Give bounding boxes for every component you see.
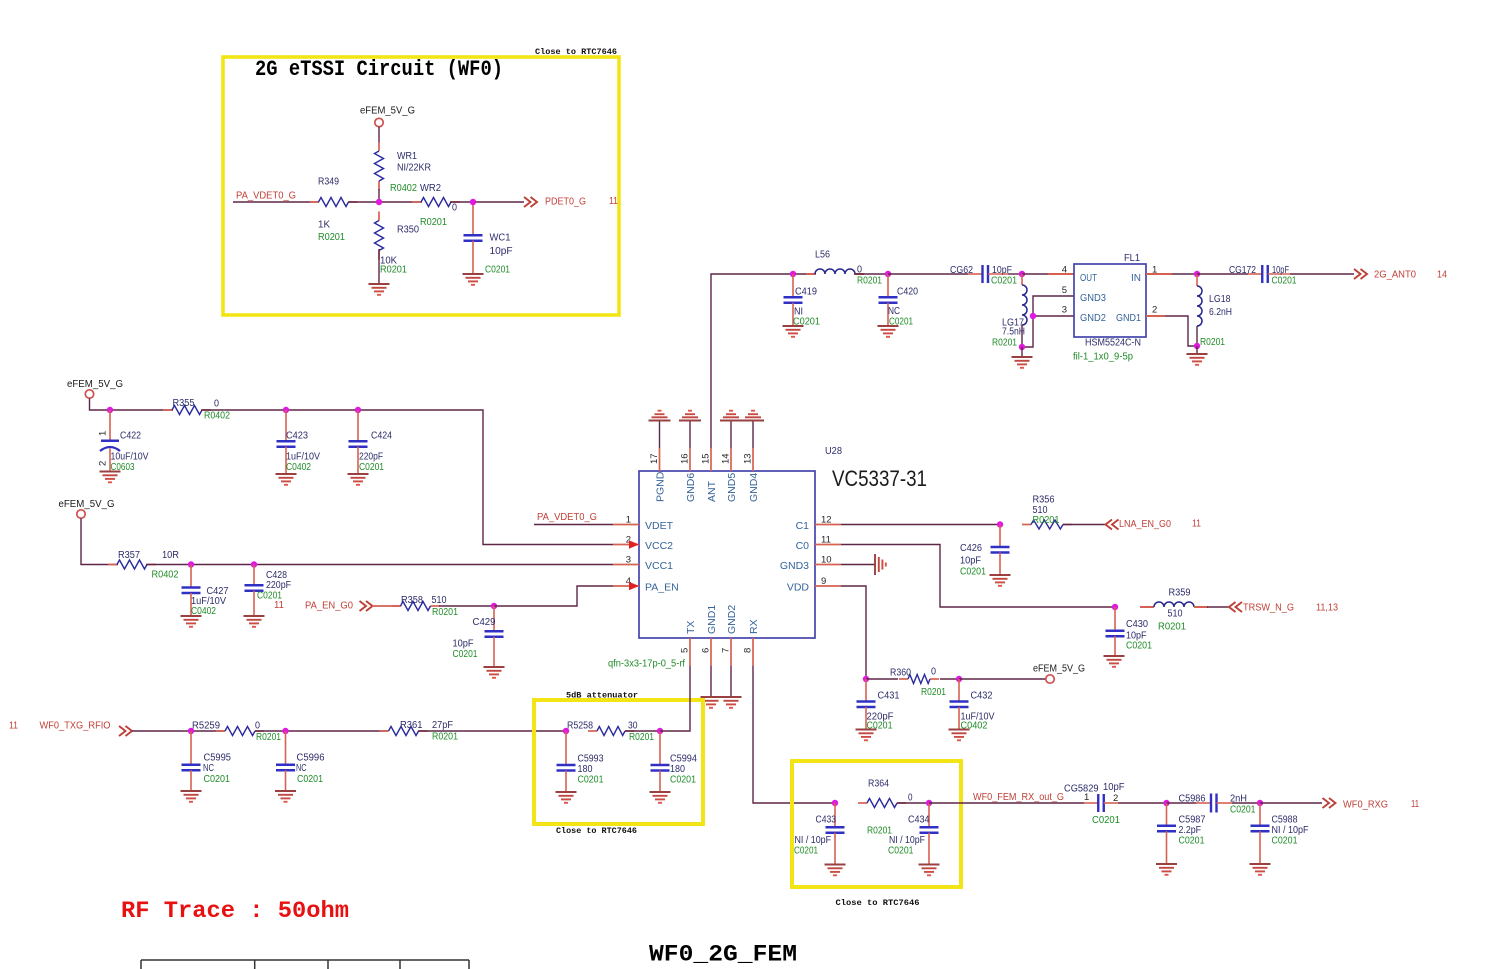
svg-text:R0201: R0201: [857, 276, 882, 287]
svg-text:TX: TX: [685, 621, 697, 634]
pin 11 stub U28 C0: [815, 544, 841, 546]
svg-text:1: 1: [1084, 792, 1089, 803]
wire R359 to TRSW port: [1207, 606, 1229, 608]
frame 5dB attenuator yellow box: [534, 700, 703, 824]
ground wire U28 GND1: [710, 666, 712, 697]
svg-text:10pF: 10pF: [490, 246, 513, 257]
svg-text:C432: C432: [971, 691, 993, 702]
svg-text:C434: C434: [908, 815, 930, 826]
wire WR2 to node2: [450, 201, 473, 203]
capacitor C427: [190, 565, 192, 588]
svg-text:11: 11: [1192, 518, 1201, 530]
svg-text:C0201: C0201: [453, 649, 478, 660]
svg-text:NI/22KR: NI/22KR: [397, 163, 431, 174]
wire CG172 to port: [1290, 273, 1354, 275]
capacitor C430: [1114, 607, 1116, 631]
svg-text:10: 10: [821, 555, 832, 566]
svg-text:1K: 1K: [318, 220, 330, 231]
svg-text:2G eTSSI Circuit (WF0): 2G eTSSI Circuit (WF0): [255, 57, 503, 82]
pin 4 stub U28 PA_EN: [613, 585, 639, 587]
wire R361 to attenuator: [418, 730, 567, 732]
ground (C422): [100, 471, 121, 473]
svg-text:R0201: R0201: [256, 732, 281, 743]
capacitor WC1: [472, 202, 474, 235]
wire PA_EN step to chip: [494, 586, 613, 606]
ground (C5993): [556, 791, 577, 793]
svg-text:U28: U28: [825, 446, 842, 457]
capacitor C420: [887, 274, 889, 297]
svg-text:PA_EN_G0: PA_EN_G0: [305, 600, 353, 612]
svg-text:16: 16: [680, 453, 691, 464]
svg-text:C426: C426: [960, 543, 982, 554]
capacitor C5996: [285, 731, 287, 765]
svg-text:GND6: GND6: [685, 473, 697, 502]
wire node to WR2: [379, 201, 422, 203]
wire R356 to LNA port: [1063, 524, 1105, 526]
wire rail2: [81, 518, 118, 564]
svg-text:C0201: C0201: [1126, 641, 1152, 652]
svg-text:180: 180: [578, 764, 593, 775]
wire node2 to PDET0_G port: [473, 201, 524, 203]
svg-text:11: 11: [274, 599, 284, 611]
capacitor C426: [999, 525, 1001, 548]
port PDET0_G: [524, 197, 531, 207]
svg-text:C0201: C0201: [204, 774, 231, 785]
wire L56 to node C420: [854, 273, 888, 275]
wire ANT net vertical: [711, 274, 793, 448]
svg-text:WR2: WR2: [420, 183, 441, 194]
ground (C5996): [275, 790, 296, 792]
svg-text:6.2nH: 6.2nH: [1209, 307, 1232, 318]
svg-text:R356: R356: [1033, 495, 1055, 506]
ground (C420): [878, 325, 899, 327]
svg-text:NI / 10pF: NI / 10pF: [795, 835, 832, 846]
wire R5258 to node C5994: [625, 730, 660, 732]
svg-text:C422: C422: [120, 431, 141, 442]
ground (C5987): [1156, 863, 1177, 865]
node att C5994: [657, 728, 663, 734]
svg-text:NC: NC: [296, 763, 307, 774]
svg-text:R5258: R5258: [567, 721, 593, 732]
svg-text:CG62: CG62: [950, 265, 973, 276]
svg-text:R0201: R0201: [380, 265, 407, 276]
node rxout C5987: [1163, 800, 1169, 806]
pin 1 stub FL1: [1146, 273, 1172, 275]
capacitor C5987: [1166, 803, 1168, 826]
svg-text:C5995: C5995: [204, 753, 232, 764]
ground (U28 pin 16): [679, 420, 701, 422]
node gnd2 pin3: [1030, 313, 1036, 319]
wire C0 to TRSW rail: [841, 545, 1115, 608]
wire LG18 to ground: [1196, 346, 1198, 354]
svg-text:LG18: LG18: [1209, 294, 1231, 305]
svg-text:C424: C424: [371, 431, 392, 442]
svg-text:VDD: VDD: [787, 582, 810, 594]
svg-text:TRSW_N_G: TRSW_N_G: [1243, 602, 1294, 614]
wire R360 to node C432: [940, 678, 959, 680]
inductor R359: [1140, 606, 1154, 608]
svg-text:CG172: CG172: [1229, 265, 1256, 276]
power eFEM_5V_G (VDD): [1046, 675, 1054, 683]
ground (C419): [783, 325, 804, 327]
node tssi out: [470, 199, 476, 205]
ground (C424): [348, 473, 369, 475]
svg-text:C419: C419: [795, 287, 817, 298]
svg-text:17: 17: [649, 453, 660, 464]
resistor R364: [858, 802, 867, 804]
wire node C431 to R360: [866, 678, 898, 680]
svg-text:C0201: C0201: [297, 774, 323, 785]
pin 2 stub U28 VCC2: [613, 544, 639, 546]
svg-text:R359: R359: [1169, 588, 1191, 599]
wire node LG18 to CG172: [1197, 273, 1248, 275]
svg-text:7: 7: [721, 648, 732, 653]
node pa_en C429: [491, 603, 497, 609]
svg-text:C0201: C0201: [1092, 815, 1120, 826]
ground (U28 pin 17): [649, 420, 671, 422]
capacitor C429: [493, 606, 495, 631]
wire PA_VDET0_G stub: [534, 524, 613, 526]
ground (C427): [181, 615, 202, 617]
svg-text:1: 1: [626, 515, 631, 526]
capacitor C5993: [565, 731, 567, 765]
pin 7 stub U28 GND2: [730, 638, 732, 666]
wire C5986 to node C5988: [1232, 802, 1260, 804]
svg-text:CG5829: CG5829: [1064, 784, 1099, 795]
svg-text:R350: R350: [397, 225, 419, 236]
svg-text:2: 2: [1152, 304, 1157, 315]
svg-text:9: 9: [821, 576, 826, 587]
pin 4 stub FL1: [1048, 273, 1074, 275]
ground (C5988): [1250, 863, 1271, 865]
port LNA_EN_G0: [1106, 520, 1113, 530]
svg-text:C0: C0: [796, 540, 810, 552]
svg-text:C0201: C0201: [1179, 836, 1205, 847]
pin 15 stub U28 ANT: [710, 448, 712, 471]
wire FL1 pin3: [1033, 315, 1074, 317]
svg-text:WF0_2G_FEM: WF0_2G_FEM: [649, 942, 797, 968]
power eFEM_5V_G (rail2): [77, 510, 85, 518]
svg-text:eFEM_5V_G: eFEM_5V_G: [59, 499, 115, 510]
svg-text:GND2: GND2: [726, 605, 738, 634]
node c1 C426: [997, 521, 1003, 527]
ground (C429): [484, 666, 505, 668]
node rail1 C422: [107, 407, 113, 413]
pin 12 stub U28 C1: [815, 524, 841, 526]
svg-text:C5994: C5994: [670, 754, 697, 765]
svg-text:R349: R349: [318, 177, 339, 188]
pin 9 stub U28 VDD: [815, 585, 841, 587]
resistor R5258: [588, 730, 597, 732]
table frame (bottom, cut off): [141, 959, 469, 961]
pin 5 stub U28 TX: [689, 638, 691, 666]
resistor R350: [378, 212, 380, 221]
svg-text:GND5: GND5: [726, 473, 738, 502]
svg-text:R0201: R0201: [432, 607, 458, 618]
wire C1 to node C426: [841, 524, 1000, 526]
wire LG17 to ground: [1021, 347, 1023, 357]
ground (C430): [1104, 655, 1125, 657]
svg-text:14: 14: [721, 453, 732, 464]
svg-text:WF0_RXG: WF0_RXG: [1343, 799, 1388, 811]
ground (R350): [369, 283, 390, 285]
svg-text:Close to RTC7646: Close to RTC7646: [535, 47, 617, 57]
svg-text:27pF: 27pF: [432, 720, 453, 731]
svg-text:R0402: R0402: [204, 411, 230, 422]
svg-text:510: 510: [1168, 609, 1183, 620]
svg-text:C0201: C0201: [1272, 836, 1298, 847]
svg-text:GND1: GND1: [1116, 312, 1141, 324]
pin 14 stub U28 GND5: [730, 448, 732, 471]
svg-text:0: 0: [452, 203, 457, 214]
node lg18 bottom: [1194, 343, 1200, 349]
svg-text:6: 6: [701, 648, 712, 653]
pin 3 stub U28 VCC1: [613, 564, 639, 566]
svg-text:PGND: PGND: [654, 471, 666, 502]
wire node C5988 to RXG port: [1260, 802, 1322, 804]
capacitor C424: [357, 410, 359, 441]
svg-text:1uF/10V: 1uF/10V: [286, 452, 320, 463]
svg-text:510: 510: [432, 595, 447, 606]
wire R364 to node C434: [897, 802, 929, 804]
resistor R360: [899, 678, 908, 680]
power eFEM_5V_G (rail1): [85, 390, 93, 398]
svg-text:8: 8: [743, 648, 754, 653]
svg-text:PA_VDET0_G: PA_VDET0_G: [537, 511, 597, 523]
power eFEM_5V_G (eTSSI): [375, 118, 383, 126]
svg-text:RX: RX: [748, 619, 760, 634]
ground (C426): [990, 574, 1011, 576]
svg-text:L56: L56: [815, 250, 830, 261]
wire rail1 b: [201, 410, 613, 545]
node fl1 in: [1019, 271, 1025, 277]
wire CG62 to node FL1-4: [1008, 273, 1022, 275]
svg-text:5dB attenuator: 5dB attenuator: [566, 691, 638, 701]
svg-text:VCC1: VCC1: [645, 560, 673, 572]
inductor LG18: [1196, 274, 1198, 286]
resistor R355: [163, 409, 172, 411]
svg-text:0: 0: [214, 398, 219, 409]
node rail2 C428: [251, 561, 257, 567]
node tssi center: [376, 199, 382, 205]
capacitor C431: [865, 679, 867, 702]
capacitor C419: [792, 274, 794, 297]
wire FL1 pin1 to node LG18: [1172, 273, 1197, 275]
ground (C434): [919, 864, 940, 866]
ground (U28 GND2): [721, 696, 742, 698]
svg-text:3: 3: [626, 555, 631, 566]
svg-text:12: 12: [821, 515, 832, 526]
resistor R361: [380, 730, 389, 732]
node att C5993: [563, 728, 569, 734]
svg-text:R0201: R0201: [1158, 622, 1186, 633]
capacitor C428: [253, 565, 255, 586]
svg-text:ANT: ANT: [706, 480, 718, 502]
svg-text:R0402: R0402: [152, 570, 179, 581]
node vdd C432: [956, 676, 962, 682]
svg-text:C0201: C0201: [991, 275, 1017, 286]
svg-text:C1: C1: [796, 520, 810, 532]
resistor WR1: [378, 142, 380, 151]
ground (U28 GND1): [701, 696, 722, 698]
svg-text:VC5337-31: VC5337-31: [832, 466, 927, 491]
wire R358 to node C429: [439, 605, 494, 607]
svg-text:eFEM_5V_G: eFEM_5V_G: [360, 106, 415, 117]
capacitor CG5829: [1084, 802, 1098, 804]
svg-text:15: 15: [701, 453, 712, 464]
svg-text:10pF: 10pF: [1103, 782, 1125, 793]
wire rail1: [90, 398, 174, 410]
svg-text:2G_ANT0: 2G_ANT0: [1374, 269, 1416, 281]
ground (WC1): [463, 273, 484, 275]
svg-text:OUT: OUT: [1080, 272, 1097, 284]
capacitor C5995: [190, 731, 192, 765]
capacitor CG172: [1248, 273, 1262, 275]
svg-text:WC1: WC1: [490, 233, 511, 244]
ground (C428): [244, 615, 265, 617]
ground (LG18): [1187, 353, 1208, 355]
svg-text:PA_EN: PA_EN: [645, 582, 679, 594]
svg-text:1: 1: [98, 431, 109, 436]
resistor R5259: [216, 730, 225, 732]
svg-text:C0201: C0201: [359, 462, 384, 473]
capacitor C5988: [1259, 803, 1261, 826]
svg-text:WR1: WR1: [397, 151, 417, 162]
svg-text:qfn-3x3-17p-0_5-rf: qfn-3x3-17p-0_5-rf: [608, 659, 685, 670]
svg-text:C0402: C0402: [286, 462, 311, 473]
svg-text:Close to RTC7646: Close to RTC7646: [836, 898, 920, 908]
wire node C419 to L56: [793, 273, 816, 275]
wire FL1 pin2 to LG18 bottom: [1165, 316, 1197, 346]
svg-text:2.2pF: 2.2pF: [1179, 825, 1202, 836]
wire node C434 to CG5829: [929, 802, 1084, 804]
wire node C5987 to C5986: [1167, 802, 1197, 804]
svg-text:5: 5: [680, 648, 691, 653]
svg-text:0: 0: [908, 793, 913, 804]
svg-text:220pF: 220pF: [266, 580, 291, 591]
capacitor C422 (polarized): [109, 410, 111, 441]
wire eFEM_5V_G to WR1: [378, 127, 380, 143]
svg-text:2: 2: [98, 461, 109, 466]
ground (C5995): [181, 790, 202, 792]
node txg C5996: [282, 728, 288, 734]
pin 16 stub U28 GND6: [689, 448, 691, 471]
svg-text:11,13: 11,13: [1316, 602, 1338, 614]
svg-text:R361: R361: [400, 720, 423, 731]
svg-text:C5996: C5996: [297, 753, 325, 764]
svg-text:fil-1_1x0_9-5p: fil-1_1x0_9-5p: [1073, 352, 1133, 363]
sideways ground wire U28 GND3: [841, 564, 875, 566]
node lg18 top: [1194, 271, 1200, 277]
svg-text:R0201: R0201: [992, 338, 1017, 349]
svg-text:NI / 10pF: NI / 10pF: [889, 835, 925, 846]
svg-text:10pF: 10pF: [960, 556, 981, 567]
svg-text:C5987: C5987: [1179, 815, 1206, 826]
svg-text:13: 13: [743, 453, 754, 464]
frame 2G eTSSI yellow box: [223, 57, 619, 315]
wire PA_VDET0_G to R349: [233, 201, 319, 203]
capacitor CG62: [968, 273, 983, 275]
wire WR1 to node: [378, 189, 380, 202]
svg-text:C431: C431: [878, 691, 900, 702]
svg-text:R0402: R0402: [390, 183, 417, 194]
node rx C434: [926, 800, 932, 806]
resistor R349: [310, 201, 319, 203]
svg-text:C420: C420: [897, 287, 918, 298]
node vdd C431: [863, 676, 869, 682]
pin 6 stub U28 GND1: [710, 638, 712, 666]
svg-text:R5259: R5259: [192, 721, 220, 732]
capacitor C423: [285, 410, 287, 441]
svg-text:LNA_EN_G0: LNA_EN_G0: [1119, 518, 1171, 530]
node rail2 C427: [188, 561, 194, 567]
node ant C419: [790, 271, 796, 277]
svg-text:IN: IN: [1131, 272, 1141, 284]
node rail1 C424: [355, 407, 361, 413]
svg-text:GND3: GND3: [1080, 292, 1106, 304]
pin 13 stub U28 GND4: [752, 448, 754, 471]
svg-text:11: 11: [609, 195, 618, 207]
svg-text:R358: R358: [401, 595, 423, 606]
svg-text:GND3: GND3: [780, 560, 809, 572]
svg-text:FL1: FL1: [1124, 253, 1140, 264]
svg-text:0: 0: [255, 721, 260, 732]
svg-text:R0201: R0201: [318, 232, 345, 243]
node ant C420: [885, 271, 891, 277]
svg-text:C0201: C0201: [888, 846, 914, 857]
ic U28 box: [639, 471, 815, 638]
svg-text:PA_VDET0_G: PA_VDET0_G: [236, 190, 296, 202]
svg-text:7.5nH: 7.5nH: [1002, 327, 1025, 338]
node rx C433: [832, 800, 838, 806]
svg-text:NI / 10pF: NI / 10pF: [1272, 825, 1309, 836]
svg-text:C423: C423: [286, 431, 308, 442]
svg-text:220pF: 220pF: [359, 452, 383, 463]
svg-text:C433: C433: [816, 815, 837, 826]
inductor LG17: [1021, 274, 1023, 285]
ground (C432): [949, 729, 970, 731]
wire FL1 pin5 rail: [1022, 296, 1074, 347]
svg-text:GND4: GND4: [748, 473, 760, 502]
svg-text:10pF: 10pF: [453, 639, 474, 650]
pin 8 stub U28 RX: [752, 638, 754, 666]
svg-text:C429: C429: [473, 617, 496, 628]
svg-text:C5988: C5988: [1272, 815, 1298, 826]
svg-text:C0201: C0201: [1230, 805, 1256, 816]
wire R350 to ground: [378, 249, 380, 284]
svg-text:5: 5: [1062, 285, 1067, 296]
svg-text:VCC2: VCC2: [645, 540, 673, 552]
wire R349 to node: [348, 201, 379, 203]
svg-text:10uF/10V: 10uF/10V: [111, 452, 149, 463]
input arrow pin 2 U28: [629, 540, 639, 549]
port WF0_RXG: [1323, 798, 1330, 808]
svg-text:R0201: R0201: [921, 687, 946, 698]
wire node C432 to power: [959, 678, 1046, 680]
svg-text:C0201: C0201: [1272, 275, 1297, 286]
pin 2 stub FL1: [1146, 315, 1165, 317]
capacitor C432: [958, 679, 960, 702]
svg-text:10pF: 10pF: [1272, 265, 1289, 276]
svg-text:R0201: R0201: [629, 732, 654, 743]
svg-text:R355: R355: [173, 398, 195, 409]
ground (C431): [856, 729, 877, 731]
resistor WR2: [412, 201, 421, 203]
svg-text:R364: R364: [868, 779, 889, 790]
svg-text:11: 11: [821, 535, 831, 546]
svg-text:3: 3: [1062, 304, 1067, 315]
svg-text:Close to RTC7646: Close to RTC7646: [556, 826, 637, 836]
